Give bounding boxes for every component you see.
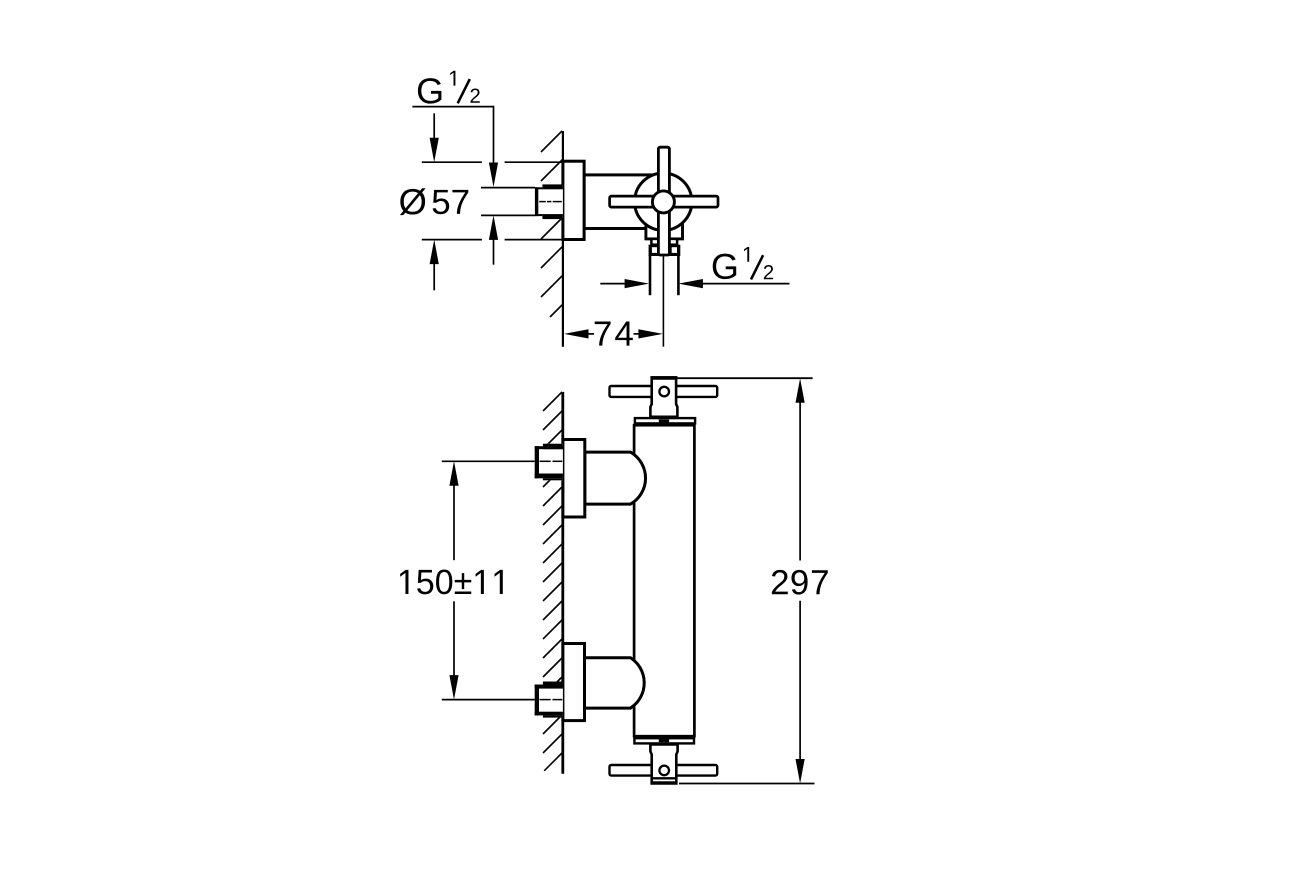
front view: upper S-union arm: [585, 452, 646, 504]
top view: gland nut: [649, 245, 681, 256]
front view: top cap plate: [635, 418, 695, 423]
top view: extension line dia57 bottom: [422, 239, 482, 241]
top view: dimension G1/2 outlet, right segment: [678, 279, 703, 288]
front view: top handle stem: [650, 377, 677, 416]
top view: wall hatching: [541, 131, 562, 152]
front view: dimension 297 extension bottom: [679, 783, 815, 785]
top view: nipple centerline: [539, 201, 546, 203]
front view: upper escutcheon: [563, 440, 585, 518]
top view: extension line dia57 top: [422, 161, 482, 163]
top view: extension line G1/2 nipple bottom: [481, 214, 536, 216]
front view: bottom handle hub hole: [659, 766, 669, 776]
front view: bottom handle cross bar: [610, 765, 718, 776]
top view: handle hub: [652, 191, 674, 213]
top view: cross handle vertical spoke: [658, 147, 669, 255]
front view: top handle hub hole: [659, 387, 669, 397]
front view: upper union nut: [535, 444, 563, 481]
top view: arrow G1/2 nipple bottom: [489, 215, 498, 240]
front view: lower S-union arm: [585, 658, 645, 708]
label G1/2 top: [418, 71, 480, 104]
front view: dimension 297 extension top: [678, 377, 813, 379]
label G1/2 outlet: [713, 247, 773, 279]
top view: cross handle horizontal spoke: [610, 196, 718, 207]
front view: wall line: [561, 392, 564, 774]
top view: dimension 74: [564, 329, 589, 338]
top view: dimension leader line G1/2 inlet: [412, 106, 493, 108]
label dia 57: [400, 188, 426, 215]
front view: lower union nut: [535, 682, 563, 718]
top view: arrow to escutcheon top (dia 57): [433, 113, 435, 140]
front view: upper nut centerline / 150 extension: [442, 460, 535, 462]
front view: top handle cross bar: [610, 386, 718, 397]
top view: valve body circle: [635, 173, 692, 230]
top view: inlet nipple G1/2 behind wall: [535, 185, 563, 219]
top view: gland nut step: [651, 239, 677, 245]
label 297: [772, 570, 788, 594]
front view: dimension 297: [796, 378, 805, 403]
front view: body cylinder: [634, 425, 694, 736]
top view: body tube: [584, 175, 660, 229]
front view: lower nut centerline / 150 extension: [442, 699, 535, 701]
top view: outlet pipe G1/2: [649, 254, 652, 295]
top view: wall line: [562, 131, 564, 347]
front view: lower escutcheon: [563, 644, 585, 721]
front view: bottom cap plate: [634, 738, 694, 743]
label 74: [595, 322, 611, 346]
front view: wall hatching: [543, 392, 562, 411]
top view: extension line G1/2 nipple top: [481, 187, 536, 189]
top view: arrow dia57 bottom: [430, 240, 439, 265]
top view: dimension G1/2 outlet, left segment: [625, 279, 650, 288]
top view: valve collar: [646, 223, 683, 239]
label 150+-11: [400, 570, 503, 595]
top view: wall flange escutcheon dia57: [563, 161, 584, 239]
front view: bottom handle stem: [650, 745, 677, 784]
front view: dimension 150+-11: [449, 461, 458, 486]
top view: outlet centerline: [662, 255, 664, 347]
